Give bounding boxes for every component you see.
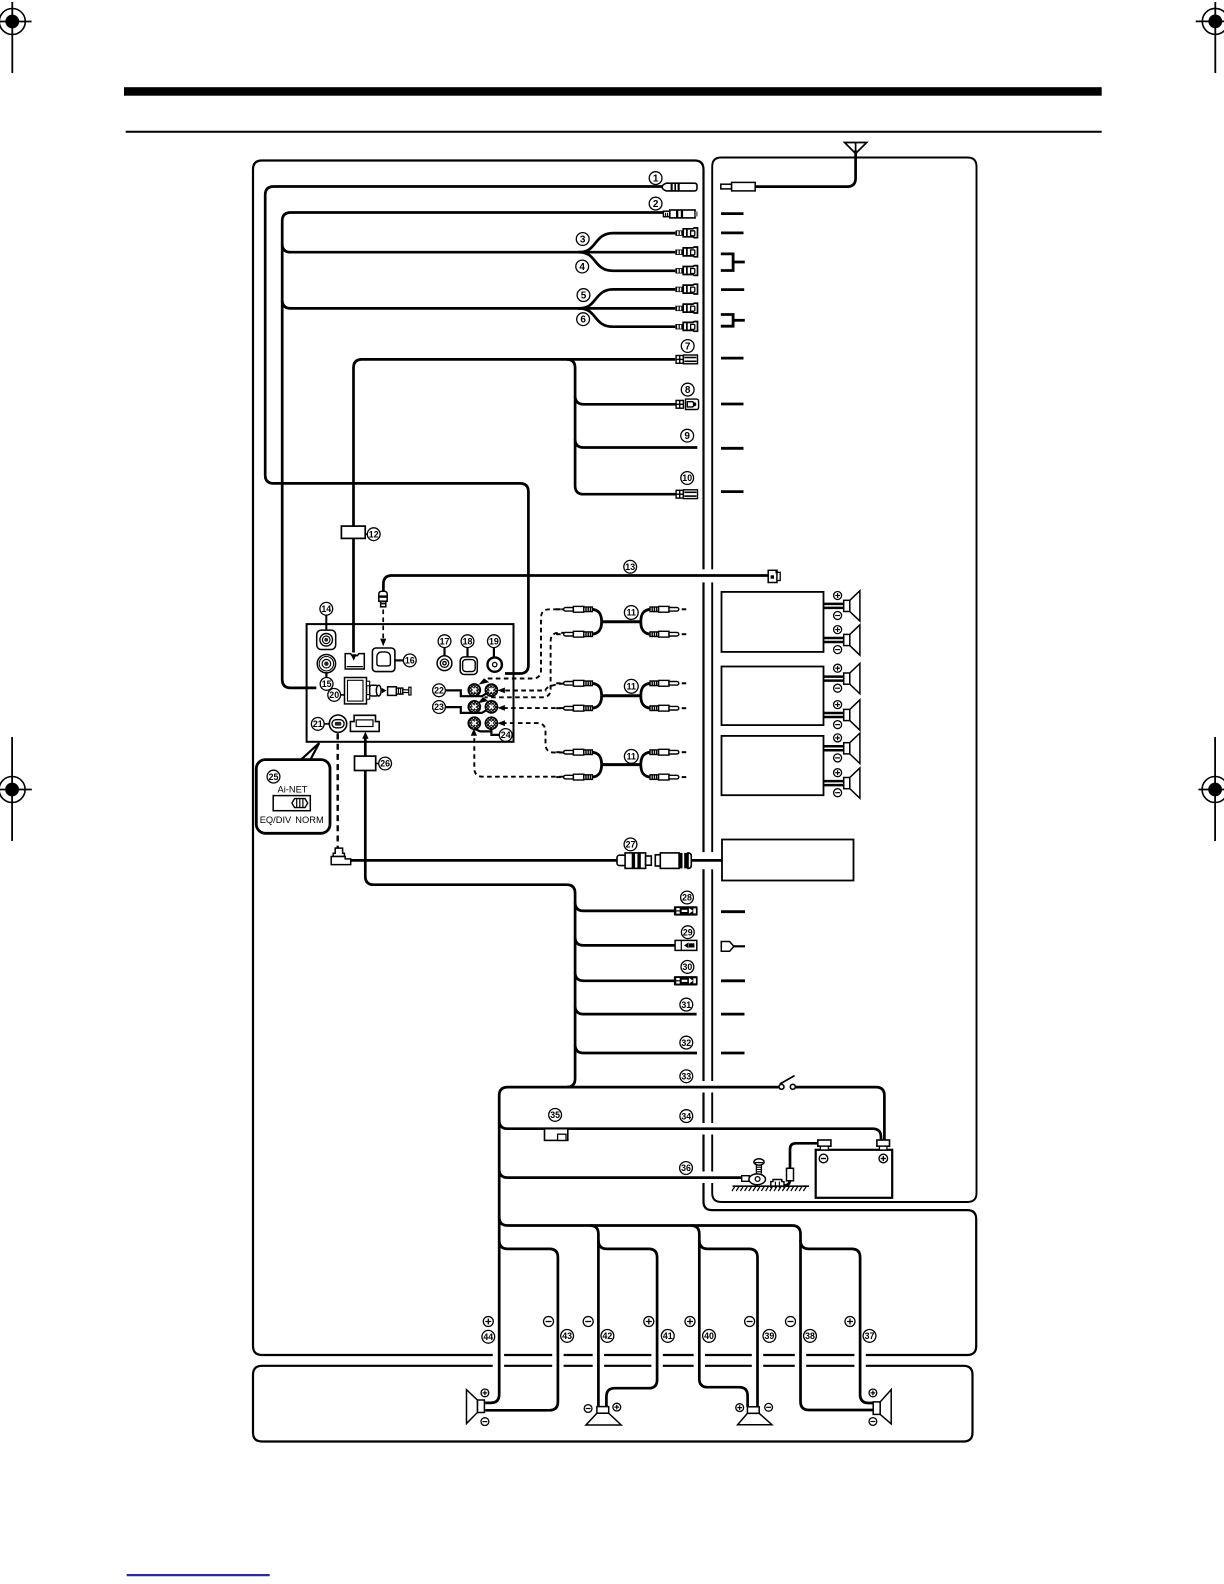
arrow into jack 22R — [497, 688, 505, 694]
svg-text:34: 34 — [681, 1111, 691, 1121]
connector 27 female DIN — [655, 853, 691, 869]
label 10 — [681, 472, 694, 485]
battery negative wire sleeve — [787, 1168, 794, 1181]
svg-text:27: 27 — [626, 840, 636, 850]
label 26 — [379, 757, 392, 770]
svg-text:17: 17 — [440, 636, 450, 646]
battery — [816, 1140, 893, 1198]
label 35 — [549, 1109, 562, 1122]
wire 27 Ai-NET cable — [351, 859, 617, 862]
battery body — [816, 1150, 893, 1198]
connector 30 — [674, 976, 698, 985]
connector 29 — [675, 940, 697, 950]
svg-text:42: 42 — [603, 1331, 613, 1341]
arrow into 8P jack — [362, 732, 368, 739]
registration mark mid-right — [1198, 737, 1224, 841]
vehicle stub row 30 — [721, 979, 745, 982]
item 26 ferrite sleeve — [355, 756, 376, 770]
svg-text:44: 44 — [483, 1332, 493, 1342]
header thin rule — [126, 131, 1102, 133]
svg-text:41: 41 — [663, 1331, 673, 1341]
vehicle stub row 31 — [721, 1013, 745, 1016]
wire 33 to switch — [567, 1086, 780, 1089]
cable 11 group — [556, 606, 686, 637]
label 13 — [624, 560, 637, 573]
arrow into jack 24L — [471, 728, 477, 735]
connector 27 male DIN — [617, 853, 651, 869]
box: head unit rear panel — [307, 624, 514, 742]
antenna symbol — [845, 143, 867, 154]
svg-text:1: 1 — [653, 174, 659, 185]
svg-text:21: 21 — [313, 719, 323, 729]
header thick rule — [124, 87, 1102, 96]
svg-text:29: 29 — [683, 927, 693, 937]
dashed link cable2 upper to jack 22R — [504, 684, 564, 691]
svg-text:8: 8 — [685, 385, 691, 396]
wire 38 speaker lead — [691, 1226, 873, 1411]
label 34 — [680, 1110, 693, 1123]
label 23 — [433, 701, 446, 714]
connector 2 antenna socket — [663, 210, 697, 218]
speaker amp3 lower — [824, 768, 860, 798]
label 8 — [681, 383, 694, 396]
arrow into jack 23R — [497, 705, 505, 711]
polarity plus wire 37 — [845, 1317, 855, 1327]
svg-text:4: 4 — [579, 262, 585, 273]
cable 11 group second — [556, 680, 686, 711]
connector 28 — [674, 906, 698, 915]
label 14 — [320, 602, 333, 615]
svg-text:Ai-NET: Ai-NET — [278, 784, 308, 794]
svg-text:31: 31 — [681, 1000, 691, 1010]
wire 39 speaker lead — [699, 1240, 757, 1406]
wire 13 dashed plug drop — [382, 610, 384, 640]
label 2 — [649, 197, 662, 210]
wire antenna to plug — [755, 151, 855, 187]
svg-text:19: 19 — [489, 636, 499, 646]
svg-text:NORM: NORM — [295, 815, 323, 825]
dashed link cable1 lower to jack 23L — [485, 633, 566, 698]
vehicle stub row 2 — [721, 212, 744, 215]
connector 13 vehicle side plug — [768, 570, 780, 582]
registration mark top-left — [0, 2, 32, 73]
label 24 — [499, 729, 512, 742]
svg-text:2: 2 — [653, 199, 659, 210]
vehicle stub row 28 — [721, 910, 745, 913]
wire 32 — [575, 1045, 697, 1054]
wire 30 — [575, 972, 674, 981]
wire 34 battery lead — [499, 1120, 881, 1140]
polarity minus wire 38 — [786, 1317, 796, 1327]
jack 15 — [317, 655, 335, 678]
wire trunk 2/3/5 — [282, 213, 664, 688]
switch 33 — [779, 1076, 795, 1090]
jacks 24 RCA pair — [468, 717, 499, 735]
wire 36 ground lead — [499, 1169, 742, 1178]
wire 37 speaker lead — [801, 1240, 874, 1403]
box: vehicle side enclosure — [712, 158, 976, 1203]
label 39 — [763, 1330, 776, 1343]
svg-text:10: 10 — [682, 473, 692, 483]
amplifier box 3 — [722, 736, 824, 795]
arrow into jack 22L — [479, 678, 490, 684]
item 20 adapter plug set — [345, 678, 412, 704]
svg-text:7: 7 — [685, 341, 691, 352]
jacks 23 RCA pair — [445, 701, 497, 713]
label 27 — [624, 838, 637, 851]
label 25 — [267, 770, 280, 783]
wire 28 — [575, 902, 674, 911]
svg-text:43: 43 — [562, 1331, 572, 1341]
svg-text:3: 3 — [580, 234, 586, 245]
switch 25 Ai-NET graphic — [260, 784, 324, 825]
label 36 — [680, 1162, 693, 1175]
dashed link cable2 lower to jack 23R — [504, 707, 564, 709]
polarity minus wire 43 — [544, 1317, 554, 1327]
fuse 35 — [545, 1129, 568, 1141]
svg-text:14: 14 — [321, 604, 331, 614]
label 32 — [680, 1036, 693, 1049]
speaker amp2 lower — [824, 700, 860, 730]
svg-text:38: 38 — [805, 1331, 815, 1341]
jack 16 — [372, 648, 403, 672]
connector 1 antenna plug — [662, 183, 697, 191]
label 3 — [576, 233, 589, 246]
jack for item 12 8P DIN — [345, 654, 364, 669]
connector 10 spade — [676, 490, 697, 499]
label 29 — [681, 926, 694, 939]
battery negative terminal — [818, 1140, 831, 1146]
svg-text:28: 28 — [682, 893, 692, 903]
svg-text:16: 16 — [405, 656, 415, 666]
label 38 — [804, 1330, 817, 1343]
svg-text:EQ/DIV: EQ/DIV — [260, 815, 292, 825]
svg-text:20: 20 — [329, 690, 339, 700]
label 30 — [681, 961, 694, 974]
label 31 — [680, 998, 693, 1011]
svg-text:11: 11 — [627, 608, 636, 618]
jack 21 — [329, 715, 346, 732]
wire 42 speaker lead — [499, 1217, 598, 1407]
svg-text:6: 6 — [580, 315, 586, 326]
vehicle stub row 8 — [721, 403, 744, 406]
ground surface hatching — [732, 1186, 809, 1191]
bottom speaker 1 left-facing — [467, 1389, 489, 1426]
callout box 25 — [256, 743, 330, 833]
svg-text:30: 30 — [683, 962, 693, 972]
wire 43 speaker lead — [485, 1240, 558, 1410]
footer blue rule — [127, 1574, 270, 1576]
label 37 — [863, 1330, 876, 1343]
label 18 — [461, 635, 474, 648]
connector 13 plug on solid lead — [379, 591, 387, 607]
svg-text:35: 35 — [550, 1110, 560, 1120]
polarity plus wire 44 — [483, 1317, 493, 1327]
vehicle stub row 9 — [721, 447, 744, 450]
jack 17 — [437, 648, 452, 671]
speaker amp2 upper — [824, 663, 860, 693]
arrow into jack 24R — [497, 720, 505, 726]
label 11b — [624, 679, 638, 693]
label 43 — [561, 1330, 574, 1343]
joined lead fork rows 5-6 — [721, 315, 745, 327]
amplifier box 1 — [722, 592, 824, 652]
connectors 3-6 bullet terminals — [675, 228, 697, 331]
label 41 — [661, 1330, 674, 1343]
svg-text:22: 22 — [434, 686, 444, 696]
connector 7 spade — [676, 355, 697, 364]
connector 8 female disconnect — [676, 399, 699, 409]
label 12 — [367, 528, 380, 541]
wire battery negative to ground lug — [778, 1143, 818, 1185]
label link lines — [324, 534, 379, 763]
item 12 ferrite sleeve — [341, 526, 365, 538]
wire 9 — [575, 439, 697, 448]
wire 3/4 branch — [282, 244, 675, 253]
wire 7 with drop to item 12 — [354, 359, 676, 652]
svg-text:13: 13 — [625, 562, 635, 572]
label 5 — [577, 289, 590, 302]
label 4 — [576, 260, 589, 273]
bottom speaker 3 down-facing — [736, 1403, 773, 1424]
jacks 22 RCA pair — [445, 684, 497, 696]
svg-text:25: 25 — [269, 772, 279, 782]
label 15 — [320, 678, 333, 691]
svg-text:40: 40 — [704, 1331, 714, 1341]
bottom speaker 2 down-facing — [584, 1403, 621, 1425]
label 7 — [681, 340, 694, 353]
label 1 — [649, 172, 662, 185]
speaker amp1 lower — [824, 625, 860, 655]
registration mark top-right — [1196, 2, 1224, 73]
polarity minus wire 39 — [745, 1317, 755, 1327]
vehicle stub row 10 — [721, 490, 744, 493]
registration mark mid-left — [0, 737, 32, 841]
label 42 — [601, 1330, 614, 1343]
vehicle stub row 3 — [721, 231, 744, 234]
svg-text:37: 37 — [865, 1331, 875, 1341]
speaker amp3 upper — [824, 733, 860, 763]
svg-text:11: 11 — [627, 682, 636, 692]
svg-text:23: 23 — [434, 702, 444, 712]
svg-text:5: 5 — [581, 291, 587, 302]
joined lead fork rows 3-4 — [721, 254, 745, 271]
svg-text:26: 26 — [380, 759, 390, 769]
jack 8P for item 26 — [350, 715, 379, 731]
vehicle stub row 5 — [721, 288, 744, 291]
wire lead 1 to jack 19 — [265, 187, 662, 674]
box: bottom speaker enclosure — [253, 1366, 973, 1442]
label 22 — [433, 684, 446, 697]
speaker amp1 upper — [824, 591, 860, 621]
wire 40 speaker lead — [590, 1226, 748, 1407]
amplifier box 2 — [722, 667, 824, 726]
polarity minus wire 42 — [583, 1317, 593, 1327]
cable 11 group third — [556, 749, 686, 780]
dashed link cable3 upper to jack 24R — [504, 723, 564, 752]
svg-text:36: 36 — [681, 1163, 691, 1173]
jack 18 — [460, 648, 477, 675]
battery positive terminal — [877, 1140, 890, 1146]
box: head-unit side outer enclosure — [253, 161, 976, 1356]
label 33 — [680, 1070, 693, 1083]
vehicle stub row 32 — [721, 1052, 745, 1055]
svg-text:33: 33 — [681, 1072, 691, 1082]
svg-text:15: 15 — [322, 679, 332, 689]
antenna plug male right box — [721, 182, 755, 191]
arrow into jack 23L — [478, 697, 489, 703]
svg-text:18: 18 — [463, 636, 473, 646]
label 17 — [438, 635, 451, 648]
bottom speaker 4 right-facing — [869, 1389, 891, 1425]
wire 41 speaker lead — [598, 1240, 657, 1406]
svg-text:39: 39 — [765, 1331, 775, 1341]
label 11a — [624, 606, 638, 620]
label 40 — [703, 1330, 716, 1343]
label 28 — [681, 891, 694, 904]
wire 5/6 branch — [282, 300, 675, 309]
ground bolt assembly — [742, 1159, 784, 1188]
svg-text:9: 9 — [684, 431, 690, 442]
label 9 — [681, 429, 694, 442]
vehicle spade lead row 29 — [721, 942, 745, 952]
jack 19 — [488, 648, 502, 672]
svg-text:24: 24 — [501, 730, 511, 740]
wire 31 — [575, 1006, 697, 1015]
wire trunk 8/9/10 — [567, 359, 677, 494]
polarity plus wire 40 — [685, 1317, 695, 1327]
connector 25 elbow plug — [331, 848, 351, 865]
svg-text:11: 11 — [627, 752, 636, 762]
jack 14 — [317, 615, 336, 650]
vehicle stub row 7 — [721, 357, 744, 360]
equalizer unit box — [722, 840, 854, 881]
label 19 — [488, 635, 501, 648]
wire 8 — [575, 396, 676, 405]
label 6 — [577, 313, 590, 326]
label 44 — [482, 1330, 495, 1343]
wire 26 trunk down to wire 44 and speaker — [365, 738, 575, 1403]
label 16 — [403, 654, 416, 667]
dashed link cable3 lower to jack 24L — [474, 736, 563, 777]
svg-text:32: 32 — [681, 1038, 691, 1048]
wire 25 Ai-NET dashed link — [337, 734, 339, 848]
polarity plus wire 41 — [644, 1317, 654, 1327]
wire 29 — [575, 937, 676, 946]
wire 33 switch to battery positive — [795, 1087, 884, 1140]
label 20 — [328, 689, 341, 702]
label 21 — [311, 718, 324, 731]
dashed link cable1 upper to jack 22L — [487, 609, 566, 678]
label 11c — [624, 750, 638, 764]
svg-text:12: 12 — [369, 529, 379, 539]
wire 13 power antenna lead — [383, 576, 768, 592]
